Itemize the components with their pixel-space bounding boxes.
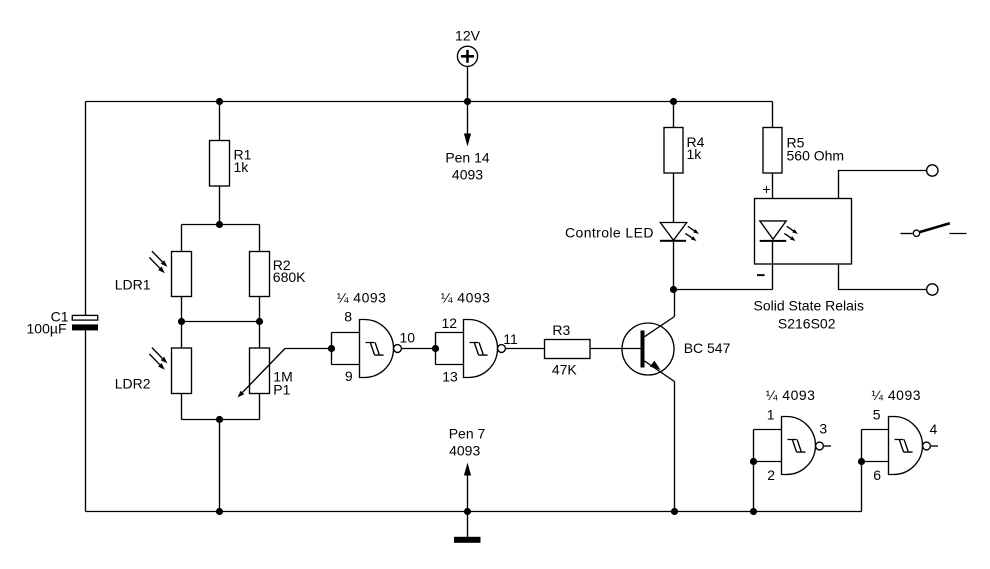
wire pen14 arrow stem xyxy=(464,102,471,147)
LED inside relay xyxy=(760,221,798,242)
svg-text:¼ 4093: ¼ 4093 xyxy=(871,387,921,403)
label R4 value 1k xyxy=(687,134,705,162)
wire relay minus to junction xyxy=(674,289,773,291)
svg-text:13: 13 xyxy=(442,369,458,385)
wire R1 bottom xyxy=(219,186,221,225)
wire bridge middle bar xyxy=(182,321,260,323)
pin 5 label xyxy=(873,407,881,423)
svg-text:8: 8 xyxy=(344,309,352,325)
node junction top 12V xyxy=(464,98,471,105)
resistor R4 xyxy=(664,128,683,174)
U1B schmitt symbol xyxy=(470,343,488,356)
wire P1 wiper to gate1 input xyxy=(285,348,332,350)
svg-text:4093: 4093 xyxy=(452,167,483,183)
wire gate4 to rail xyxy=(861,462,863,512)
pin 1 label xyxy=(767,407,775,423)
node junction gate3 input xyxy=(750,458,757,465)
wire bridge right upper xyxy=(259,225,261,252)
svg-text:12V: 12V xyxy=(455,28,481,44)
relay box K1 xyxy=(755,199,852,265)
label R1 value 1k xyxy=(234,147,252,175)
wire bridge bottom bar xyxy=(182,419,260,421)
potentiometer P1 body xyxy=(250,348,270,394)
op-amp U1A nand gate body xyxy=(360,320,394,378)
label minus xyxy=(757,274,765,276)
svg-text:100µF: 100µF xyxy=(27,321,67,337)
label 12V xyxy=(455,28,481,44)
wire top rail corner to R5 xyxy=(772,102,774,128)
wire LED to junction xyxy=(673,242,675,290)
svg-text:Pen 14: Pen 14 xyxy=(445,150,490,166)
U1D output bubble xyxy=(923,442,931,450)
pin 9 label xyxy=(345,368,353,384)
svg-text:3: 3 xyxy=(819,420,827,436)
label 4093 pen14 xyxy=(452,167,483,183)
wire bridge top bar xyxy=(182,224,260,226)
label Solid State Relais xyxy=(754,297,865,313)
wire 12V stem xyxy=(467,66,469,101)
wire bridge right lower xyxy=(259,394,261,420)
svg-text:Pen 7: Pen 7 xyxy=(449,425,486,441)
label LDR1 xyxy=(115,276,151,292)
U1A output bubble xyxy=(394,345,402,353)
node junction gate4 input xyxy=(858,458,865,465)
U1C schmitt symbol xyxy=(788,440,806,453)
wire gate2 input bracket xyxy=(436,333,464,365)
svg-text:LDR1: LDR1 xyxy=(115,276,151,292)
transistor Q1 BC547 xyxy=(622,317,675,382)
wire R4 top xyxy=(673,102,675,128)
wire R5 to relay xyxy=(772,173,774,221)
wire left rail upper xyxy=(85,102,87,316)
svg-text:9: 9 xyxy=(345,368,353,384)
node junction gate3 rail xyxy=(750,508,757,515)
wire relay LED down xyxy=(772,242,774,290)
label R3 xyxy=(552,322,570,338)
pin 6 label xyxy=(873,467,881,483)
pin 8 label xyxy=(344,309,352,325)
node junction pen7 xyxy=(464,508,471,515)
label quarter 4093 gate3 xyxy=(766,387,816,403)
wire bridge left middle xyxy=(181,297,183,349)
op-amp U1D nand gate body xyxy=(889,417,923,475)
svg-text:¼ 4093: ¼ 4093 xyxy=(766,387,816,403)
wire gate2 output to R3 xyxy=(505,348,544,350)
wire relay bottom terminal xyxy=(839,264,927,290)
photoresistor LDR1 xyxy=(172,252,192,297)
pin 4 label xyxy=(930,421,938,437)
svg-text:Solid State Relais: Solid State Relais xyxy=(754,297,865,313)
pin 10 label xyxy=(400,329,416,345)
pin 3 label xyxy=(819,420,827,436)
ground xyxy=(454,512,481,543)
svg-text:6: 6 xyxy=(873,467,881,483)
resistor R5 xyxy=(763,128,782,174)
svg-text:¼ 4093: ¼ 4093 xyxy=(441,290,491,306)
label S216S02 xyxy=(778,315,836,331)
node junction bridge bottom rail xyxy=(216,508,223,515)
node junction bridge bottom xyxy=(216,416,223,423)
node junction bridge top xyxy=(216,221,223,228)
wire R3 to base xyxy=(590,348,641,350)
label C1 xyxy=(51,308,69,324)
label Pen 14 xyxy=(445,150,490,166)
wire collector up xyxy=(674,290,676,317)
svg-text:LDR2: LDR2 xyxy=(115,376,151,392)
wire emitter down xyxy=(674,382,676,512)
wire gate3 input bracket xyxy=(754,430,782,462)
label Pen 7 xyxy=(449,425,486,441)
svg-text:¼ 4093: ¼ 4093 xyxy=(337,290,387,306)
node junction emitter rail xyxy=(671,508,678,515)
label 4093 pen7 xyxy=(449,443,480,459)
svg-text:1k: 1k xyxy=(234,159,250,175)
svg-text:11: 11 xyxy=(503,331,518,347)
svg-text:+: + xyxy=(762,181,770,197)
wire gate4 output stub xyxy=(930,445,938,447)
label 100uF xyxy=(27,321,67,337)
svg-text:12: 12 xyxy=(442,315,458,331)
capacitor C1 xyxy=(72,315,98,330)
svg-text:BC 547: BC 547 xyxy=(684,340,731,356)
label BC 547 xyxy=(684,340,731,356)
svg-text:R3: R3 xyxy=(552,322,570,338)
svg-text:P1: P1 xyxy=(273,382,290,398)
resistor R2 xyxy=(250,252,270,297)
LDR2 light arrows xyxy=(149,348,167,370)
resistor R3 xyxy=(545,340,591,359)
wire gate4 input bracket xyxy=(862,430,889,462)
pin 11 label xyxy=(503,331,518,347)
potentiometer P1 wiper arrow xyxy=(238,349,286,398)
label Controle LED xyxy=(565,225,654,241)
node junction gate2 input xyxy=(432,345,439,352)
LED D1 control xyxy=(660,223,699,242)
op-amp U1B nand gate body xyxy=(464,320,498,378)
node junction bridge mid left xyxy=(178,318,185,325)
node junction R1 top xyxy=(216,98,223,105)
label P1 value 1M xyxy=(273,368,292,397)
wire gate1 input bracket xyxy=(332,333,360,365)
pin 2 label xyxy=(767,467,775,483)
LDR1 light arrows xyxy=(149,251,167,273)
op-amp U1C nand gate body xyxy=(782,417,816,475)
wire R4 to LED xyxy=(673,173,675,223)
pin 13 label xyxy=(442,369,458,385)
label quarter 4093 gate4 xyxy=(871,387,921,403)
wire bridge to bottom rail xyxy=(219,420,221,512)
svg-text:2: 2 xyxy=(767,467,775,483)
node junction gate1 input xyxy=(328,345,335,352)
svg-text:10: 10 xyxy=(400,329,416,345)
U1A schmitt symbol xyxy=(366,343,384,356)
svg-text:4093: 4093 xyxy=(449,443,480,459)
svg-text:4: 4 xyxy=(930,421,938,437)
label LDR2 xyxy=(115,376,151,392)
U1D schmitt symbol xyxy=(895,440,913,453)
label plus xyxy=(762,181,770,197)
U1B output bubble xyxy=(498,345,506,353)
wire pen7 arrow stem xyxy=(464,463,471,512)
wire bridge left lower xyxy=(181,394,183,420)
label quarter 4093 gate2 xyxy=(441,290,491,306)
wire R1 top xyxy=(219,102,221,141)
power source +12V symbol xyxy=(457,46,477,66)
wire relay top terminal xyxy=(839,171,927,199)
wire gate3 output stub xyxy=(823,445,831,447)
svg-text:1k: 1k xyxy=(687,146,703,162)
wire bridge right middle xyxy=(259,297,261,349)
wire left rail lower xyxy=(85,330,87,511)
label quarter 4093 gate1 xyxy=(337,290,387,306)
pin 12 label xyxy=(442,315,458,331)
U1C output bubble xyxy=(816,442,824,450)
svg-text:47K: 47K xyxy=(552,362,578,378)
wire bridge left upper xyxy=(181,225,183,252)
node junction bridge mid right xyxy=(256,318,263,325)
label R5 value 560 Ohm xyxy=(787,134,845,163)
terminal circle top xyxy=(927,165,938,176)
svg-text:Controle LED: Controle LED xyxy=(565,225,654,241)
label R2 value 680K xyxy=(273,257,306,285)
svg-text:560 Ohm: 560 Ohm xyxy=(787,148,845,164)
svg-text:680K: 680K xyxy=(273,269,306,285)
wire bottom rail xyxy=(86,511,862,513)
wire top rail xyxy=(86,101,773,103)
svg-text:5: 5 xyxy=(873,407,881,423)
wire gate1 output xyxy=(401,348,435,350)
label 47K xyxy=(552,362,578,378)
resistor R1 xyxy=(210,141,230,187)
wire gate3 to rail xyxy=(753,462,755,512)
terminal circle bottom xyxy=(927,284,938,295)
svg-text:S216S02: S216S02 xyxy=(778,315,836,331)
photoresistor LDR2 xyxy=(172,348,192,394)
node junction collector LED relay xyxy=(670,286,677,293)
node junction R4 top xyxy=(670,98,677,105)
svg-text:1: 1 xyxy=(767,407,775,423)
switch contact xyxy=(901,223,967,236)
